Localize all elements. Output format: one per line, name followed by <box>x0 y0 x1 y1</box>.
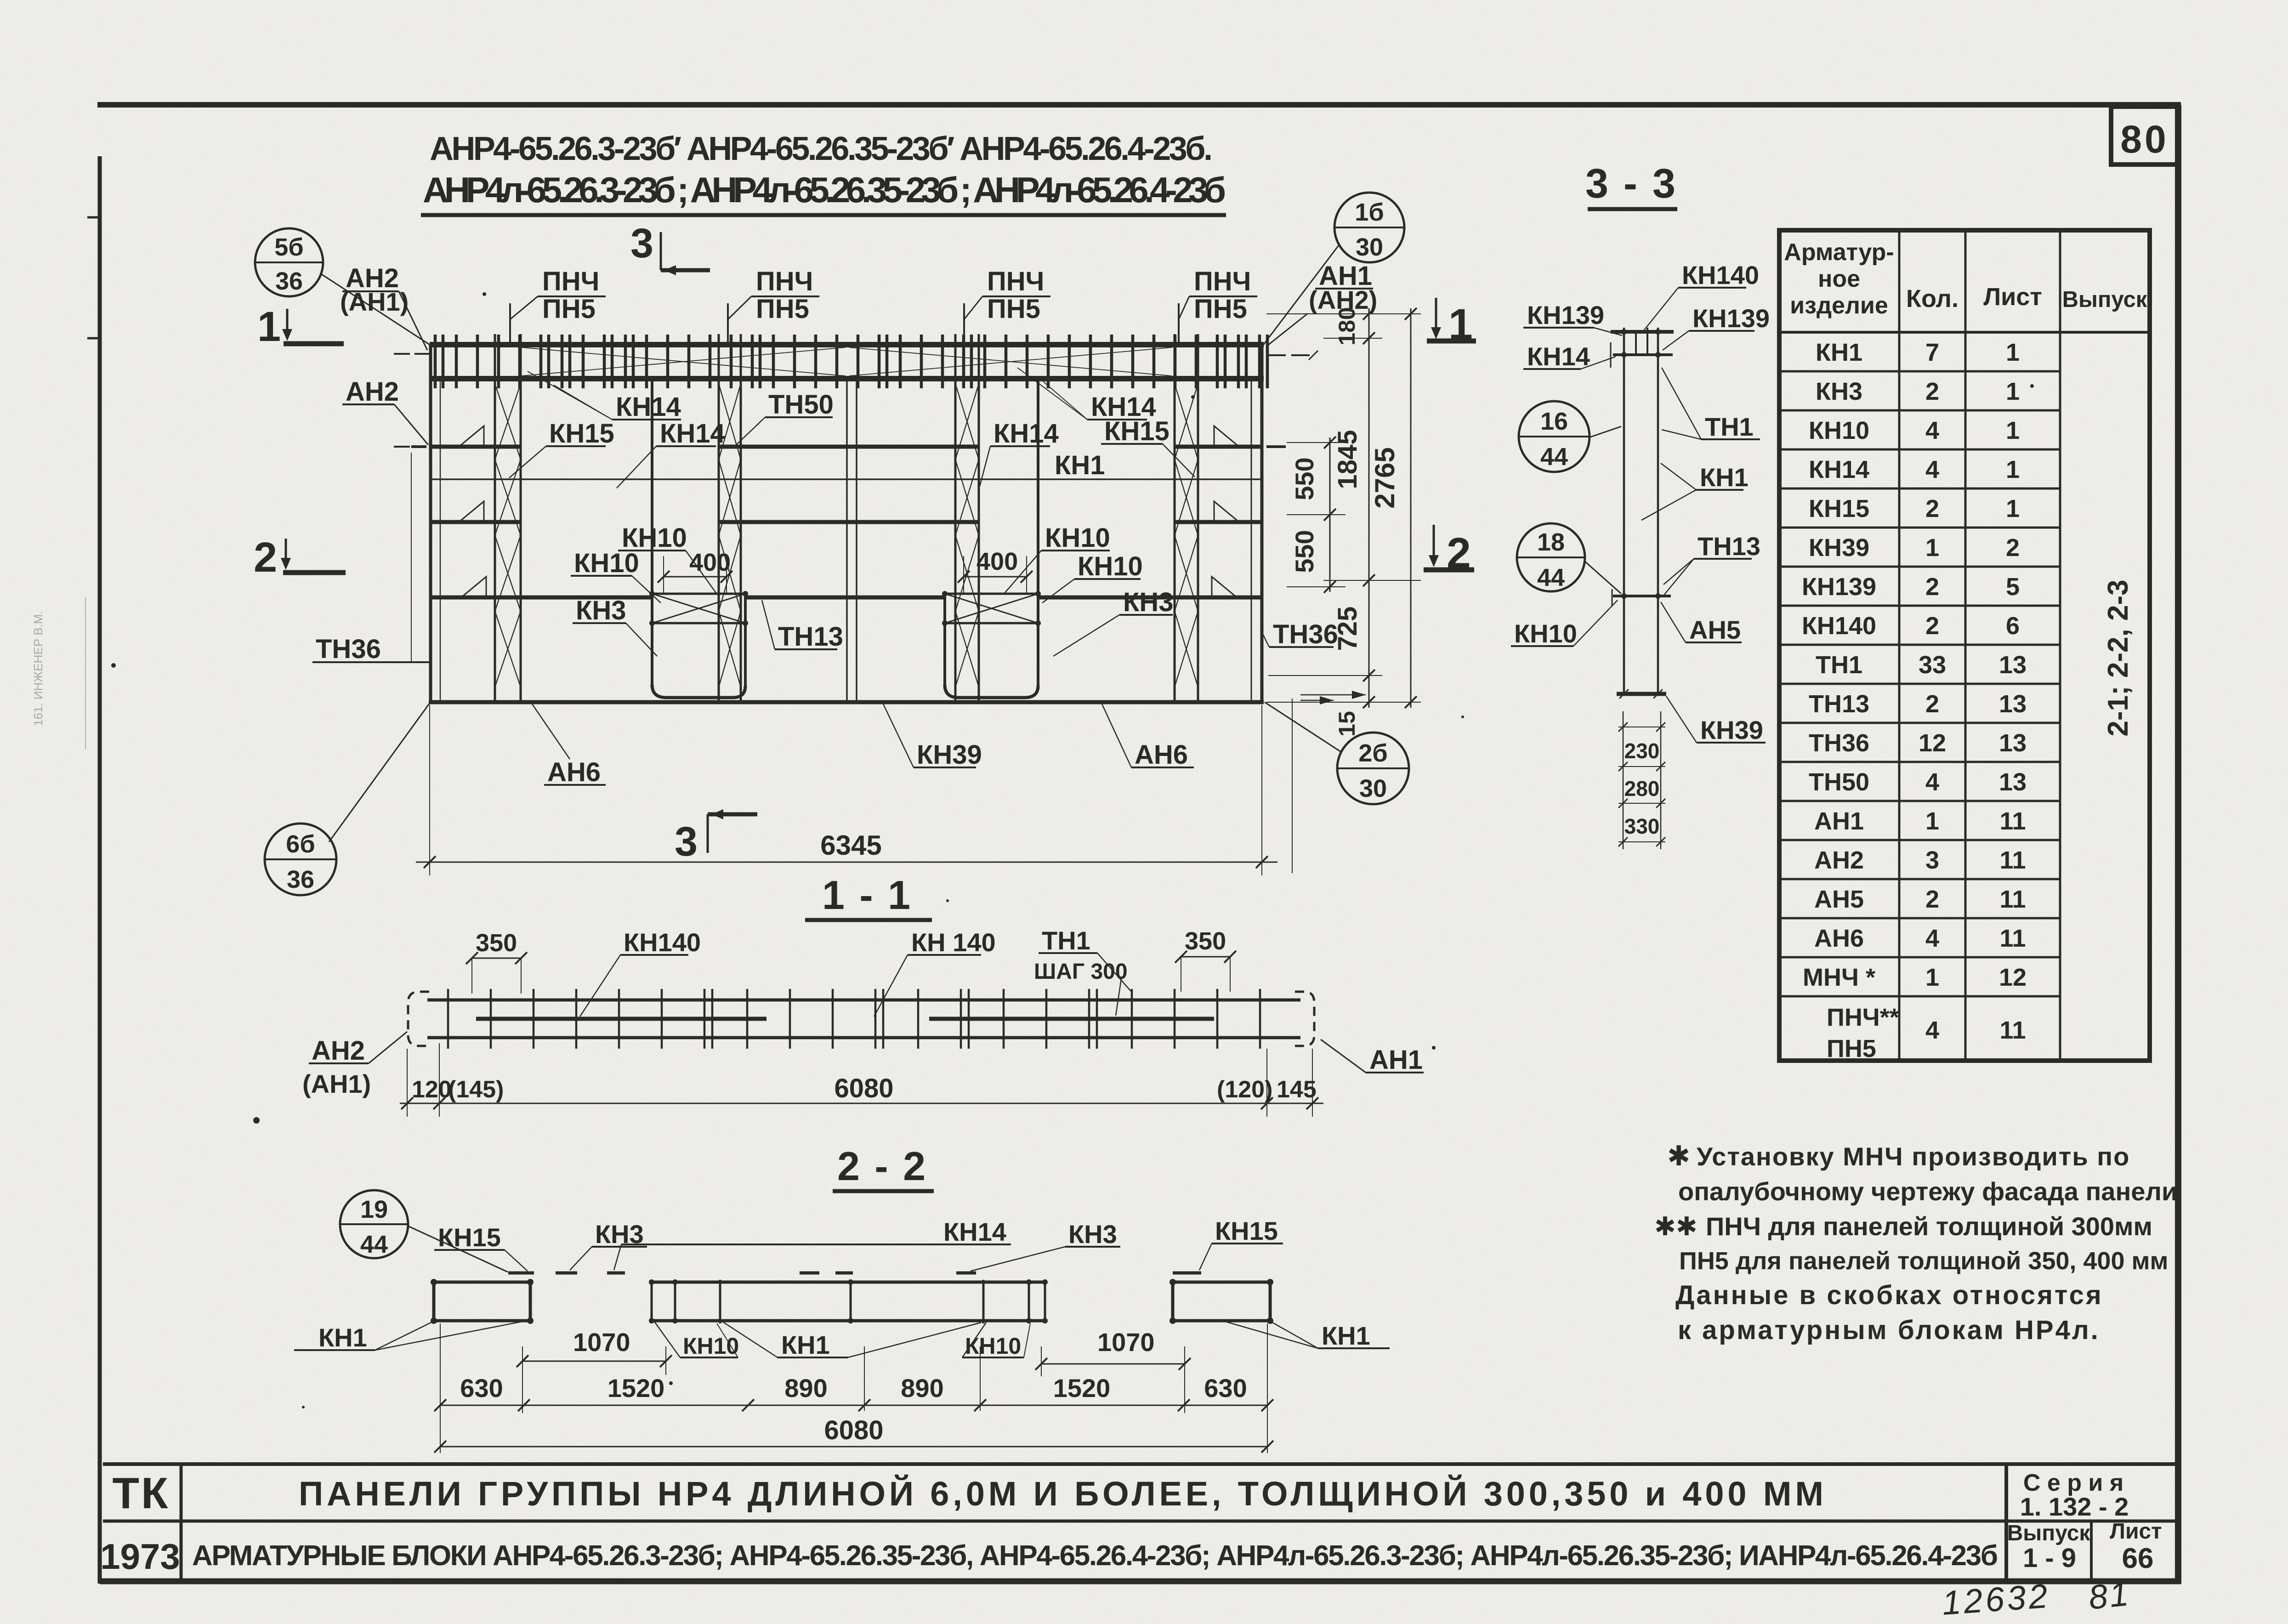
svg-text:КН10: КН10 <box>574 548 639 578</box>
svg-text:(АН1): (АН1) <box>302 1069 371 1098</box>
svg-text:550: 550 <box>1290 457 1319 500</box>
svg-text:КН10: КН10 <box>1045 523 1110 553</box>
svg-text:КН 140: КН 140 <box>911 928 996 957</box>
section 3-3 inner bars <box>1635 332 1637 355</box>
elevation top rail lower chord <box>430 376 1264 381</box>
svg-text:1: 1 <box>2006 378 2020 405</box>
svg-text:КН15: КН15 <box>1104 416 1170 446</box>
svg-text:КН10: КН10 <box>1078 551 1143 581</box>
svg-text:ПНЧ для панелей толщиной 3: ПНЧ для панелей толщиной 300мм <box>1706 1212 2152 1241</box>
svg-text:2: 2 <box>1925 886 1939 913</box>
svg-text:1б: 1б <box>1355 199 1384 226</box>
svg-text:1: 1 <box>2006 456 2020 483</box>
svg-text:5: 5 <box>2006 573 2020 601</box>
section 1-1 dimension line <box>400 1103 1323 1104</box>
svg-text:30: 30 <box>1359 775 1387 802</box>
svg-text:550: 550 <box>1290 530 1319 573</box>
svg-text:180: 180 <box>1334 307 1360 345</box>
svg-text:изделие: изделие <box>1790 292 1888 319</box>
svg-text:400: 400 <box>977 548 1018 575</box>
section 1-1 beam chords <box>427 999 1300 1002</box>
svg-text:ПАНЕЛИ ГРУППЫ НР4 ДЛИНОЙ 6: ПАНЕЛИ ГРУППЫ НР4 ДЛИНОЙ 6,0М И БОЛЕЕ, Т… <box>299 1474 1824 1513</box>
svg-text:36: 36 <box>287 866 314 893</box>
svg-text:4: 4 <box>1925 456 1939 483</box>
sheet frame left border <box>98 156 102 1584</box>
svg-text:6б: 6б <box>286 830 315 858</box>
title block verticals <box>180 1464 183 1581</box>
edge flag triangles <box>457 426 484 448</box>
section 2-2 middle assembly <box>652 1281 1045 1284</box>
svg-text:630: 630 <box>460 1374 503 1403</box>
svg-text:КН140: КН140 <box>1682 261 1759 290</box>
svg-text:1070: 1070 <box>1097 1328 1155 1357</box>
svg-text:КН1: КН1 <box>781 1330 830 1359</box>
svg-text:Установку МНЧ производить п: Установку МНЧ производить по <box>1697 1142 2130 1171</box>
svg-text:КН14: КН14 <box>660 419 725 449</box>
svg-text:(120): (120) <box>1217 1076 1272 1103</box>
panel left edge <box>429 345 432 702</box>
panel right edge <box>1260 345 1264 702</box>
section mark 1 right <box>1435 298 1437 334</box>
svg-text:350: 350 <box>476 929 517 957</box>
table header row line <box>1779 331 2150 334</box>
svg-text:3 - 3: 3 - 3 <box>1585 161 1677 207</box>
circle 16/44 <box>1519 401 1590 472</box>
section 3-3 bottom bar <box>1617 692 1666 696</box>
svg-text:АН2: АН2 <box>312 1036 365 1066</box>
dashed tie level АН2 top <box>394 353 410 355</box>
svg-text:АНР4л-65.26.3-23б ; АНР4л-6: АНР4л-65.26.3-23б ; АНР4л-65.26.35-23б ;… <box>423 170 1226 210</box>
svg-text:630: 630 <box>1204 1374 1247 1403</box>
svg-text:66: 66 <box>2122 1543 2154 1574</box>
svg-text:КН10: КН10 <box>1809 417 1869 444</box>
svg-text:КН10: КН10 <box>965 1333 1021 1359</box>
svg-text:16: 16 <box>1540 408 1568 435</box>
svg-text:30: 30 <box>1356 233 1383 261</box>
svg-text:44: 44 <box>1537 564 1565 591</box>
svg-text:1: 1 <box>1925 807 1939 835</box>
svg-text:7: 7 <box>1925 339 1939 366</box>
svg-text:АРМАТУРНЫЕ БЛОКИ АНР4-65.26.: АРМАТУРНЫЕ БЛОКИ АНР4-65.26.3-23б; АНР4-… <box>192 1540 1998 1572</box>
cross-braced box KH10 left <box>652 594 745 623</box>
thin extension vertical left of panel <box>411 453 412 662</box>
table row lines and cells <box>1779 370 2060 373</box>
svg-text:120: 120 <box>412 1076 452 1103</box>
svg-text:АНР4-65.26.3-23б′ АНР4-65: АНР4-65.26.3-23б′ АНР4-65.26.35-23б′ АНР… <box>430 131 1213 167</box>
elevation top rail mesh diagonals <box>522 347 846 376</box>
svg-text:44: 44 <box>1540 443 1568 471</box>
svg-text:13: 13 <box>1999 690 2027 718</box>
svg-text:КН139: КН139 <box>1802 573 1876 601</box>
circle 19/44 <box>340 1190 408 1258</box>
table outer border <box>1779 230 2150 1061</box>
svg-text:КН1: КН1 <box>318 1323 367 1352</box>
svg-text:1845: 1845 <box>1333 430 1363 489</box>
svg-text:2: 2 <box>1925 690 1939 718</box>
svg-text:АН5: АН5 <box>1814 886 1864 913</box>
svg-text:АН6: АН6 <box>1135 740 1188 770</box>
svg-text:КН14: КН14 <box>943 1217 1006 1246</box>
svg-text:80: 80 <box>2120 118 2169 161</box>
sheet frame bottom border <box>100 1579 2181 1584</box>
svg-text:11: 11 <box>1999 886 2026 913</box>
svg-text:КН139: КН139 <box>1692 304 1770 333</box>
svg-text:145: 145 <box>1277 1076 1317 1103</box>
svg-text:ТН13: ТН13 <box>1698 532 1760 561</box>
svg-text:2б: 2б <box>1358 739 1387 767</box>
circle 18/44 <box>1517 523 1585 591</box>
svg-text:ТН1: ТН1 <box>1042 926 1090 955</box>
section 1-1 dashed end caps <box>408 992 429 1046</box>
svg-text:4: 4 <box>1925 1016 1939 1044</box>
svg-text:ТН1: ТН1 <box>1705 412 1754 441</box>
circle 2б/30 <box>1337 733 1409 804</box>
dimension 2765 overall <box>1410 308 1412 708</box>
svg-text:ное: ное <box>1818 266 1860 292</box>
svg-text:2: 2 <box>1925 573 1939 601</box>
svg-text:опалубочному чертежу фасада: опалубочному чертежу фасада панели <box>1678 1177 2177 1206</box>
svg-text:✱✱: ✱✱ <box>1654 1212 1698 1241</box>
horizontal bar row C <box>431 520 521 524</box>
svg-text:81: 81 <box>2087 1574 2132 1617</box>
svg-text:1: 1 <box>1925 534 1939 562</box>
svg-text:ПНЧ: ПНЧ <box>987 267 1044 296</box>
svg-text:Кол.: Кол. <box>1906 285 1959 312</box>
svg-text:ПНЧ**: ПНЧ** <box>1827 1004 1899 1031</box>
svg-text:КН15: КН15 <box>549 419 614 449</box>
section 3-3 top bar <box>1611 330 1674 334</box>
svg-text:КН3: КН3 <box>1816 378 1862 405</box>
svg-text:1: 1 <box>2006 417 2020 444</box>
sheet frame right border <box>2175 105 2181 1584</box>
svg-text:КН15: КН15 <box>1809 495 1869 522</box>
svg-text:1 - 9: 1 - 9 <box>2023 1543 2076 1573</box>
svg-text:3: 3 <box>675 819 698 865</box>
svg-text:КН1: КН1 <box>1700 463 1749 492</box>
svg-text:КН1: КН1 <box>1055 450 1105 480</box>
svg-text:2: 2 <box>2006 534 2020 562</box>
svg-text:ПНЧ: ПНЧ <box>542 267 599 296</box>
svg-text:280: 280 <box>1624 777 1660 801</box>
svg-text:4: 4 <box>1925 768 1939 796</box>
svg-text:ПН5: ПН5 <box>987 294 1040 324</box>
svg-text:ТК: ТК <box>112 1469 170 1518</box>
svg-text:КН15: КН15 <box>1215 1216 1278 1245</box>
section 2-2 overall 6080 <box>440 1446 1267 1448</box>
svg-text:2: 2 <box>254 534 277 581</box>
svg-text:АН6: АН6 <box>1814 925 1864 952</box>
svg-text:КН14: КН14 <box>1527 342 1590 371</box>
svg-text:1: 1 <box>2006 339 2020 366</box>
svg-text:ТН1: ТН1 <box>1816 651 1862 679</box>
svg-text:44: 44 <box>360 1231 388 1258</box>
svg-text:3: 3 <box>1925 846 1939 874</box>
title block top line <box>103 1462 2178 1466</box>
svg-text:Лист: Лист <box>2110 1519 2162 1544</box>
svg-text:4: 4 <box>1925 925 1939 952</box>
thin extension vertical right of panel <box>1292 698 1293 873</box>
circle 1б/30 <box>1334 193 1404 262</box>
svg-text:КН14: КН14 <box>616 392 681 422</box>
svg-text:11: 11 <box>1999 846 2026 874</box>
cross-braced box KH10 right <box>945 594 1038 623</box>
svg-text:АН6: АН6 <box>547 757 601 787</box>
svg-text:3: 3 <box>630 221 653 267</box>
svg-text:1: 1 <box>257 303 281 350</box>
svg-text:КН14: КН14 <box>1809 456 1869 483</box>
svg-text:2: 2 <box>1925 612 1939 640</box>
svg-text:400: 400 <box>689 549 731 576</box>
svg-text:КН140: КН140 <box>624 928 701 957</box>
svg-text:330: 330 <box>1624 814 1660 838</box>
svg-text:2 - 2: 2 - 2 <box>837 1143 927 1189</box>
page number box 80 <box>2111 107 2178 165</box>
svg-text:к арматурным блокам НР4л.: к арматурным блокам НР4л. <box>1678 1315 2100 1345</box>
svg-text:ПНЧ: ПНЧ <box>756 267 813 296</box>
svg-text:АН5: АН5 <box>1689 615 1741 644</box>
svg-text:Данные в скобках относятся: Данные в скобках относятся <box>1675 1280 2103 1310</box>
svg-text:1. 132 - 2: 1. 132 - 2 <box>2020 1492 2129 1521</box>
window frame verticals with anchor hooks <box>651 379 653 687</box>
section mark 2 right <box>1433 525 1435 562</box>
svg-text:13: 13 <box>1999 651 2027 679</box>
svg-text:12: 12 <box>1999 964 2027 991</box>
horizontal bar row A (KH15 level) <box>432 445 521 449</box>
fold tick marks on left border <box>87 216 100 219</box>
dashed extension right at АН1 level <box>1267 354 1286 356</box>
svg-text:✱: ✱ <box>1667 1141 1690 1171</box>
svg-text:13: 13 <box>1999 768 2027 796</box>
elevation top rail upper chord <box>430 342 1264 347</box>
svg-text:6080: 6080 <box>834 1073 893 1103</box>
svg-text:АН1: АН1 <box>1369 1045 1423 1075</box>
svg-text:(145): (145) <box>448 1076 504 1103</box>
svg-text:ПН5: ПН5 <box>1194 294 1247 324</box>
svg-text:ПН5: ПН5 <box>1827 1035 1876 1062</box>
horizontal bar row D (TH13 level) <box>431 596 652 600</box>
svg-text:Арматур-: Арматур- <box>1784 239 1894 266</box>
svg-text:Выпуск: Выпуск <box>2007 1521 2091 1545</box>
svg-text:725: 725 <box>1333 607 1363 651</box>
svg-text:1520: 1520 <box>1053 1374 1111 1403</box>
svg-text:1: 1 <box>1448 300 1473 349</box>
svg-text:ПНЧ: ПНЧ <box>1194 267 1251 296</box>
svg-text:2: 2 <box>1925 378 1939 405</box>
section 3-3 second bar <box>1613 353 1673 356</box>
svg-text:2: 2 <box>1925 495 1939 522</box>
svg-text:(АН1): (АН1) <box>340 287 409 316</box>
svg-text:АН1: АН1 <box>1814 807 1864 835</box>
svg-text:1520: 1520 <box>607 1374 665 1403</box>
svg-text:6345: 6345 <box>820 830 881 861</box>
extension lines right dimensions <box>1266 313 1421 314</box>
svg-text:ТН13: ТН13 <box>778 622 843 652</box>
svg-text:890: 890 <box>784 1374 827 1403</box>
svg-text:ТН50: ТН50 <box>768 390 834 420</box>
svg-text:КН3: КН3 <box>1068 1220 1117 1249</box>
svg-text:6080: 6080 <box>824 1415 883 1445</box>
svg-text:КН10: КН10 <box>1514 619 1577 648</box>
svg-text:11: 11 <box>1999 1016 2026 1044</box>
panel centre double vertical <box>846 379 848 702</box>
section 2-2 block 1 <box>434 1282 530 1321</box>
section 3-3 mid bar <box>1613 595 1671 597</box>
section 2-2 dimension chain <box>440 1405 1267 1406</box>
circle 6б/36 <box>265 823 336 895</box>
svg-text:ТН36: ТН36 <box>1809 729 1869 757</box>
svg-text:КН1: КН1 <box>1816 339 1862 366</box>
svg-text:890: 890 <box>901 1374 943 1403</box>
dimension 550/550 inner chain <box>1329 437 1331 592</box>
svg-text:230: 230 <box>1624 739 1660 763</box>
svg-text:4: 4 <box>1925 417 1939 444</box>
ladder column K1 <box>494 334 496 702</box>
svg-text:12: 12 <box>1919 729 1946 757</box>
svg-text:КН39: КН39 <box>1809 534 1869 562</box>
svg-text:ПН5: ПН5 <box>542 294 596 324</box>
svg-text:18: 18 <box>1537 528 1565 556</box>
svg-text:ТН50: ТН50 <box>1809 768 1869 796</box>
svg-text:КН14: КН14 <box>994 419 1059 449</box>
double arrows 15 at bottom <box>1300 694 1366 696</box>
svg-text:Лист: Лист <box>1983 283 2042 311</box>
svg-text:161. ИНЖЕНЕР В.М.: 161. ИНЖЕНЕР В.М. <box>31 611 45 726</box>
svg-text:КН1: КН1 <box>1322 1321 1370 1350</box>
svg-text:5б: 5б <box>274 233 303 261</box>
svg-text:1070: 1070 <box>573 1328 630 1357</box>
section 1-1 KH140 mid bars <box>476 1017 766 1021</box>
svg-text:1: 1 <box>2006 495 2020 522</box>
svg-text:13: 13 <box>1999 729 2027 757</box>
svg-text:12632: 12632 <box>1941 1577 2051 1622</box>
table column lines <box>1898 230 1901 1061</box>
svg-text:11: 11 <box>1999 807 2026 835</box>
title block mid line <box>103 1520 2178 1523</box>
section 1-1 cross ticks <box>447 989 449 1049</box>
svg-text:МНЧ *: МНЧ * <box>1803 964 1875 991</box>
svg-text:АН2: АН2 <box>346 377 399 407</box>
dimension chain 180/1845/725/15 <box>1368 308 1370 708</box>
svg-text:33: 33 <box>1919 651 1946 679</box>
circle 5б/36 <box>255 228 323 296</box>
section 3-3 column verticals <box>1623 328 1625 695</box>
svg-text:КН39: КН39 <box>917 740 982 770</box>
svg-text:АН2: АН2 <box>1814 846 1864 874</box>
svg-text:КН139: КН139 <box>1527 301 1604 329</box>
extension verticals for 6345 <box>429 705 430 875</box>
svg-text:2-1; 2-2, 2-3: 2-1; 2-2, 2-3 <box>2102 579 2134 736</box>
horizontal thin bar KH1 level <box>432 478 1262 480</box>
svg-text:Выпуск: Выпуск <box>2062 287 2147 312</box>
panel bottom chord <box>429 700 1264 704</box>
svg-text:15: 15 <box>1334 711 1360 737</box>
dashes at row A left <box>394 446 410 448</box>
svg-text:КН3: КН3 <box>1123 587 1174 617</box>
svg-text:2: 2 <box>1447 529 1471 578</box>
scan specks <box>253 1117 260 1124</box>
svg-text:2765: 2765 <box>1369 447 1400 508</box>
svg-text:36: 36 <box>275 267 303 295</box>
svg-text:350: 350 <box>1185 927 1226 955</box>
svg-text:6: 6 <box>2006 612 2020 640</box>
svg-text:КН15: КН15 <box>438 1223 501 1252</box>
svg-text:ТН13: ТН13 <box>1809 690 1869 718</box>
dimension 6345 <box>416 862 1277 863</box>
section 2-2 block 3 <box>1173 1282 1270 1321</box>
elevation top rail cross ticks <box>434 335 437 388</box>
svg-text:1 - 1: 1 - 1 <box>822 872 912 918</box>
svg-text:ПН5 для панелей толщиной 3: ПН5 для панелей толщиной 350, 400 мм <box>1679 1247 2168 1275</box>
section 2-2 top tie ticks <box>508 1272 534 1275</box>
svg-text:ТН36: ТН36 <box>316 634 381 664</box>
svg-text:КН39: КН39 <box>1700 715 1763 744</box>
svg-text:1: 1 <box>1925 964 1939 991</box>
svg-text:1973: 1973 <box>100 1536 180 1577</box>
svg-text:КН140: КН140 <box>1802 612 1876 640</box>
sheet frame top border <box>97 102 2181 108</box>
svg-text:19: 19 <box>360 1196 388 1223</box>
svg-text:ПН5: ПН5 <box>756 294 809 324</box>
svg-text:ТН36: ТН36 <box>1273 619 1338 649</box>
svg-text:КН3: КН3 <box>576 596 626 625</box>
svg-text:11: 11 <box>1999 925 2026 952</box>
section 3-3 lower dimension boxes 230/280/330 <box>1623 711 1624 849</box>
